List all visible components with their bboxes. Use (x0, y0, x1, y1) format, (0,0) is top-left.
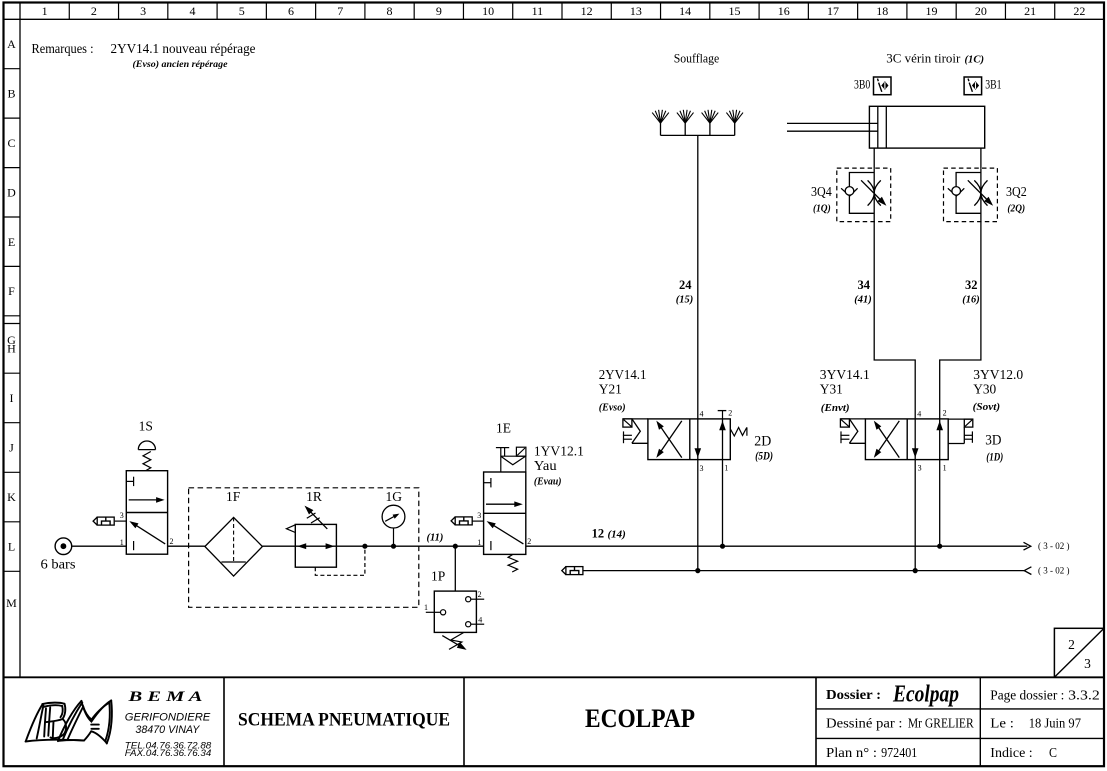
svg-text:FAX.04.76.36.76.34: FAX.04.76.36.76.34 (125, 748, 212, 759)
svg-text:19: 19 (926, 4, 938, 18)
1P spring zigzag (449, 633, 464, 650)
1P port labels (424, 590, 482, 624)
svg-text:11: 11 (532, 4, 544, 18)
exhaust line arrow in (1024, 567, 1031, 575)
regulator 1R pilot dashed feedback (315, 546, 365, 575)
cylinder rod (787, 122, 878, 124)
svg-text:12: 12 (592, 527, 605, 541)
svg-text:Page dossier :: Page dossier : (990, 687, 1064, 702)
svg-text:1E: 1E (496, 420, 511, 435)
wire cylinder right port down (980, 148, 982, 168)
svg-text:Le :: Le : (990, 716, 1014, 731)
svg-text:(Evso) ancien répérage: (Evso) ancien répérage (133, 59, 229, 70)
page number box (1054, 628, 1104, 677)
svg-text:1S: 1S (139, 418, 153, 433)
svg-text:2: 2 (91, 4, 97, 18)
svg-text:1: 1 (120, 538, 124, 547)
svg-text:GERIFONDIERE: GERIFONDIERE (125, 711, 211, 723)
svg-text:14: 14 (679, 4, 691, 18)
wire soufflage down to 2D port4 (697, 135, 699, 419)
svg-text:(Envt): (Envt) (821, 403, 850, 414)
svg-text:(16): (16) (962, 294, 980, 305)
svg-text:(Evso): (Evso) (599, 403, 626, 414)
svg-text:38470 VINAY: 38470 VINAY (135, 724, 200, 736)
svg-text:34: 34 (858, 278, 871, 292)
svg-text:3YV14.1: 3YV14.1 (820, 367, 870, 382)
valve 2D cross arrows (656, 421, 682, 458)
adjustment arrow (968, 180, 991, 203)
wire 1S to 1F (168, 545, 205, 547)
throttle arcs (868, 180, 875, 205)
junction dot gauge (391, 544, 396, 549)
svg-text:D: D (7, 185, 16, 199)
svg-text:8: 8 (387, 4, 393, 18)
valve 2D port2 plug (718, 410, 727, 412)
svg-text:SCHEMA PNEUMATIQUE: SCHEMA PNEUMATIQUE (238, 710, 450, 731)
regulator 1R relief triangle (286, 525, 295, 533)
svg-text:3D: 3D (985, 433, 1001, 449)
svg-text:10: 10 (482, 4, 494, 18)
valve 1E muffler (451, 517, 455, 525)
valve 2D spring (730, 427, 747, 436)
line 12 wire (526, 545, 1028, 547)
wire source to 1S (72, 545, 127, 547)
BEMA logo monogram (26, 700, 112, 743)
valve 1S manual button (138, 441, 155, 450)
svg-text:21: 21 (1024, 4, 1036, 18)
svg-text:2: 2 (728, 409, 732, 418)
svg-text:B E M A: B E M A (127, 689, 202, 705)
exhaust line wire (583, 570, 1026, 572)
wire 3D port1 to line12 (939, 460, 941, 547)
svg-text:6 bars: 6 bars (41, 558, 76, 573)
check valve (948, 188, 965, 196)
flow control valve center line (980, 168, 982, 222)
valve 3D port labels (917, 409, 946, 473)
title block divider dossier/page (979, 677, 981, 766)
svg-text:Dossier :: Dossier : (826, 687, 881, 702)
filter 1F center dashed (233, 517, 235, 562)
svg-text:3: 3 (1084, 656, 1091, 671)
svg-text:A: A (7, 37, 16, 51)
svg-text:( 3 - 02 ): ( 3 - 02 ) (1038, 541, 1070, 552)
column numbers 1-22 (42, 4, 1086, 18)
svg-text:C: C (1049, 745, 1057, 760)
valve 1S body (126, 471, 167, 555)
svg-text:(1C): (1C) (965, 55, 985, 66)
valve 2D port labels (700, 409, 733, 473)
frame top header row line (4, 18, 1105, 20)
svg-text:Y31: Y31 (820, 382, 843, 397)
wire cylinder left port down (873, 148, 875, 168)
svg-text:(Evau): (Evau) (534, 477, 562, 488)
svg-text:3B1: 3B1 (985, 77, 1001, 92)
svg-text:18: 18 (876, 4, 888, 18)
valve 1S muffler (93, 517, 97, 525)
valve 2D port4-3 straight path (697, 419, 699, 460)
svg-text:J: J (9, 440, 14, 454)
row letters A-M (6, 37, 17, 610)
svg-text:(1Q): (1Q) (813, 204, 831, 215)
bypass loop wire (849, 173, 874, 214)
valve 1S spring top (143, 452, 151, 471)
svg-text:3: 3 (477, 511, 481, 520)
flow control valve dashed enclosure (944, 168, 998, 222)
svg-text:Soufflage: Soufflage (674, 51, 720, 66)
title block divider schema/ecolpap (463, 677, 465, 766)
svg-text:(5D): (5D) (755, 451, 773, 463)
1P port stubs (426, 599, 484, 624)
svg-text:2: 2 (1068, 637, 1075, 652)
cylinder piston (877, 106, 879, 148)
wire 3Q4 down jog to 3D port4 (874, 222, 915, 419)
svg-text:( 3 - 02 ): ( 3 - 02 ) (1038, 566, 1070, 577)
svg-text:17: 17 (827, 4, 839, 18)
valve 2D body (648, 419, 730, 460)
svg-text:(15): (15) (676, 294, 694, 305)
svg-text:Indice :: Indice : (990, 745, 1032, 760)
title block divider logo/schema (223, 677, 225, 766)
svg-text:(41): (41) (854, 294, 872, 305)
filter 1F water chord (221, 561, 245, 563)
regulator 1R flow arrows (295, 545, 336, 547)
svg-text:M: M (6, 596, 17, 610)
svg-text:18 Juin 97: 18 Juin 97 (1029, 716, 1082, 731)
svg-text:Y30: Y30 (973, 382, 996, 397)
svg-text:3: 3 (120, 511, 124, 520)
svg-text:32: 32 (965, 278, 978, 292)
gauge 1G stem (393, 528, 395, 546)
valve 3D port4-3 straight path (914, 419, 916, 460)
FRL dashed enclosure (189, 488, 419, 608)
svg-text:B: B (7, 87, 15, 101)
valve 3D cross arrows (874, 421, 900, 458)
svg-text:22: 22 (1073, 4, 1085, 18)
svg-text:972401: 972401 (881, 745, 917, 760)
gauge 1G dial (382, 505, 405, 528)
svg-text:1: 1 (42, 4, 48, 18)
junction dot 3D line12 (937, 544, 942, 549)
1P contact circles (441, 597, 471, 627)
flow control valve center line (873, 168, 875, 222)
page number diagonal (1054, 628, 1104, 677)
svg-text:1G: 1G (385, 489, 402, 504)
valve 1S port labels (120, 511, 174, 547)
svg-text:4: 4 (189, 4, 195, 18)
svg-text:(Sovt): (Sovt) (973, 402, 1001, 413)
title block row line 2 (816, 737, 1104, 739)
wire 2D port1 to line12 (722, 460, 724, 547)
svg-text:Mr GRELIER: Mr GRELIER (908, 716, 974, 731)
svg-text:3: 3 (700, 464, 704, 473)
wire down to 1P (454, 546, 456, 591)
junction dot 2D line12 (720, 544, 725, 549)
valve 3D divider (906, 419, 908, 460)
sensor 3B1 (964, 77, 982, 95)
title block divider ecolpap/dossier (815, 677, 817, 766)
svg-text:(14): (14) (608, 529, 626, 541)
valve 1S port3 wire (115, 520, 127, 522)
valve 1E pilot head (496, 447, 526, 472)
flow control valve dashed enclosure (837, 168, 891, 222)
svg-text:5: 5 (239, 4, 245, 18)
junction dot 3D exhaust (913, 568, 918, 573)
gauge 1G needle (385, 515, 397, 522)
svg-text:16: 16 (778, 4, 790, 18)
wire 1F to 1R (262, 545, 295, 547)
svg-text:Yau: Yau (534, 458, 557, 473)
svg-text:3: 3 (140, 4, 146, 18)
svg-text:4: 4 (917, 410, 921, 419)
svg-text:H: H (7, 341, 16, 355)
junction dot 2D exhaust (695, 568, 700, 573)
regulator 1R adjustment spring (307, 513, 320, 523)
svg-text:1R: 1R (306, 489, 322, 504)
regulator 1R adjustment stem (306, 508, 327, 529)
sensor 3B0 (874, 77, 892, 95)
svg-text:6: 6 (288, 4, 294, 18)
svg-text:(11): (11) (427, 532, 444, 543)
valve 3D solenoid right (948, 418, 973, 420)
title block top line (4, 676, 1105, 678)
svg-text:1F: 1F (226, 489, 241, 504)
svg-text:3YV12.0: 3YV12.0 (973, 367, 1023, 382)
svg-text:Remarques :: Remarques : (32, 42, 94, 57)
svg-text:15: 15 (728, 4, 740, 18)
exhaust line muffler (562, 567, 566, 575)
column number ticks (69, 3, 1054, 20)
svg-text:2: 2 (943, 409, 947, 418)
svg-text:F: F (8, 284, 15, 298)
svg-text:1: 1 (724, 464, 728, 473)
bypass loop wire (956, 173, 981, 214)
svg-text:(1D): (1D) (986, 451, 1003, 463)
svg-text:20: 20 (975, 4, 987, 18)
valve 1E body (484, 472, 526, 554)
svg-text:2: 2 (478, 590, 482, 599)
valve 1E port labels (477, 511, 531, 547)
svg-text:2YV14.1: 2YV14.1 (599, 367, 647, 382)
title block row line 1 (816, 708, 1104, 710)
check valve (841, 188, 858, 196)
svg-text:ECOLPAP: ECOLPAP (585, 704, 695, 733)
valve 1E port3 wire (472, 520, 484, 522)
junction dot 1P branch (453, 544, 458, 549)
svg-text:1: 1 (943, 464, 947, 473)
svg-text:1: 1 (477, 538, 481, 547)
pressure source 6 bars (55, 538, 72, 555)
line 12 arrow out (1024, 542, 1031, 550)
svg-text:L: L (8, 539, 15, 553)
throttle arcs (974, 180, 981, 205)
svg-text:3: 3 (918, 464, 922, 473)
svg-text:2: 2 (170, 537, 174, 546)
svg-text:9: 9 (436, 4, 442, 18)
row letter ticks (4, 69, 21, 572)
adjustment arrow (861, 180, 884, 203)
junction dot regulator feedback (362, 544, 367, 549)
svg-text:Y21: Y21 (599, 382, 622, 397)
svg-text:13: 13 (630, 4, 642, 18)
wire 1R to 1E (336, 545, 483, 547)
svg-text:3C vérin tiroir: 3C vérin tiroir (886, 51, 961, 66)
svg-text:7: 7 (337, 4, 343, 18)
svg-text:4: 4 (478, 616, 482, 625)
svg-text:E: E (8, 235, 15, 249)
svg-text:24: 24 (679, 278, 692, 292)
valve 1E spring bottom (508, 554, 517, 572)
valve 3D body (865, 419, 948, 460)
svg-text:(2Q): (2Q) (1007, 204, 1025, 215)
svg-text:C: C (7, 136, 15, 150)
wire 3Q2 down jog to 3D port2 (940, 222, 981, 419)
valve 2D port1-2 straight path (722, 419, 724, 460)
valve 2D solenoid (623, 418, 648, 420)
valve 2D divider (689, 419, 691, 460)
svg-text:2: 2 (527, 537, 531, 546)
cylinder 3C body (869, 106, 984, 148)
valve 3D port1-2 straight path (939, 419, 941, 460)
svg-text:I: I (10, 391, 14, 405)
soufflage bus wire (661, 134, 735, 136)
svg-text:3B0: 3B0 (854, 77, 870, 92)
svg-text:2YV14.1 nouveau répérage: 2YV14.1 nouveau répérage (111, 42, 256, 57)
svg-text:3Q2: 3Q2 (1006, 184, 1027, 199)
wire 3D port3 to exhaust (914, 460, 916, 571)
svg-text:3Q4: 3Q4 (811, 184, 832, 199)
blow nozzles (652, 110, 743, 136)
svg-text:1P: 1P (431, 568, 445, 583)
svg-text:2D: 2D (754, 434, 771, 450)
filter 1F diamond (205, 517, 263, 576)
svg-text:12: 12 (581, 4, 593, 18)
frame left letter column line (19, 3, 21, 678)
wire 2D port3 to exhaust (697, 460, 699, 571)
svg-text:1YV12.1: 1YV12.1 (534, 443, 584, 458)
svg-text:K: K (7, 490, 16, 504)
pressure switch 1P body (434, 591, 476, 632)
svg-text:4: 4 (700, 410, 704, 419)
svg-text:Plan n° :: Plan n° : (826, 745, 877, 760)
regulator 1R body (295, 524, 336, 567)
svg-text:Dessiné par :: Dessiné par : (826, 716, 903, 731)
1P spring arrow (442, 636, 464, 649)
svg-text:3.3.2: 3.3.2 (1068, 687, 1100, 702)
svg-text:Ecolpap: Ecolpap (892, 682, 959, 708)
svg-text:1: 1 (424, 603, 428, 612)
valve 3D solenoid left (840, 418, 865, 420)
